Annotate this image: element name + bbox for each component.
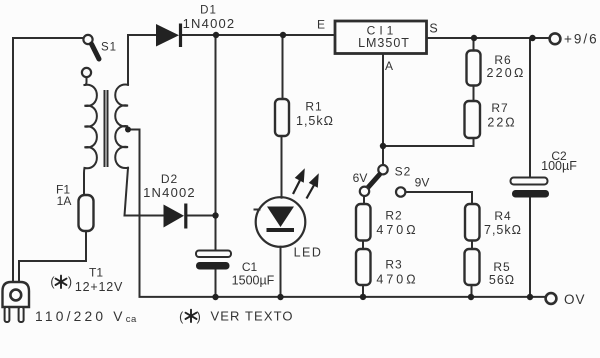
- svg-text:R2: R2: [385, 209, 402, 223]
- svg-text:C1: C1: [242, 260, 258, 274]
- svg-text:12+12V: 12+12V: [75, 280, 123, 294]
- svg-text:S1: S1: [101, 42, 117, 54]
- svg-text:R5: R5: [493, 260, 510, 274]
- svg-text:A: A: [385, 59, 393, 73]
- svg-text:R7: R7: [491, 101, 508, 115]
- svg-text:): ): [197, 310, 201, 324]
- svg-text:1N4002: 1N4002: [183, 16, 236, 31]
- svg-text:1A: 1A: [57, 194, 72, 208]
- svg-text:T1: T1: [89, 266, 103, 280]
- svg-text:+9/6: +9/6: [564, 32, 599, 47]
- svg-text:220Ω: 220Ω: [486, 66, 525, 80]
- svg-text:S2: S2: [395, 165, 412, 179]
- svg-text:56Ω: 56Ω: [489, 273, 515, 287]
- svg-text:R6: R6: [494, 53, 511, 67]
- svg-text:R4: R4: [494, 209, 511, 223]
- svg-text:LM350T: LM350T: [358, 36, 410, 50]
- svg-text:S: S: [429, 22, 437, 36]
- svg-text:9V: 9V: [415, 176, 430, 190]
- svg-text:OV: OV: [564, 292, 586, 307]
- svg-text:E: E: [317, 18, 325, 32]
- svg-text:100µF: 100µF: [541, 159, 577, 173]
- svg-text:D1: D1: [200, 5, 217, 17]
- svg-text:1,5kΩ: 1,5kΩ: [296, 114, 334, 128]
- svg-text:LED: LED: [294, 246, 323, 260]
- svg-text:470Ω: 470Ω: [376, 223, 418, 237]
- svg-text:): ): [68, 275, 72, 289]
- svg-text:110/220 Vca: 110/220 Vca: [35, 309, 137, 325]
- svg-text:6V: 6V: [353, 171, 368, 185]
- svg-text:D2: D2: [161, 172, 178, 186]
- svg-text:VER TEXTO: VER TEXTO: [211, 309, 294, 324]
- svg-text:22Ω: 22Ω: [487, 116, 516, 130]
- svg-text:R1: R1: [305, 100, 322, 114]
- svg-text:1N4002: 1N4002: [143, 185, 196, 200]
- svg-text:1500µF: 1500µF: [232, 274, 275, 288]
- svg-text:470Ω: 470Ω: [376, 273, 418, 287]
- svg-text:R3: R3: [385, 258, 402, 272]
- svg-text:7,5kΩ: 7,5kΩ: [484, 223, 522, 237]
